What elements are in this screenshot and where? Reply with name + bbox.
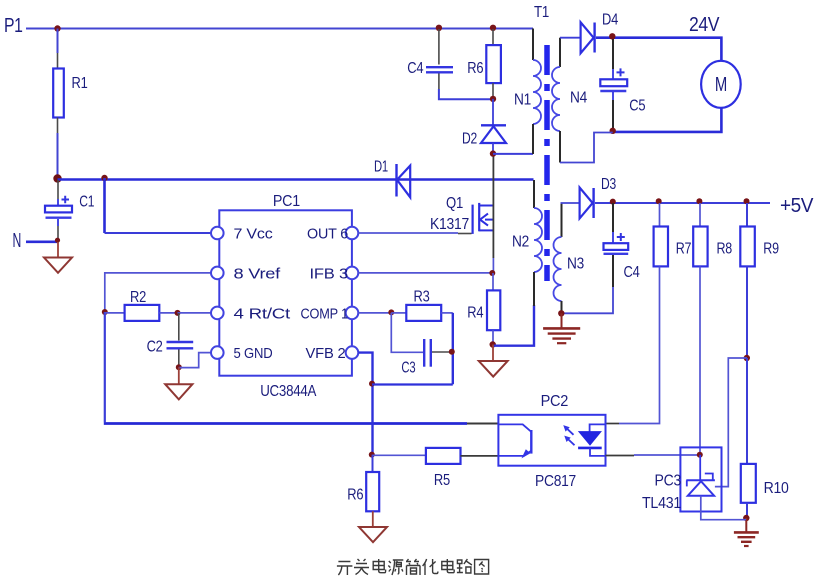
- wire C2 junction to pin 5: [179, 353, 211, 368]
- resistor R7: [654, 203, 692, 266]
- node junction R8 top: [696, 198, 702, 204]
- svg-text:R3: R3: [414, 289, 430, 306]
- node junction top rail / C4: [436, 25, 442, 31]
- svg-text:R1: R1: [72, 75, 88, 92]
- wire R7 bottom to PC2 LED anode: [606, 266, 660, 423]
- svg-text:7 Vcc: 7 Vcc: [234, 225, 274, 242]
- svg-text:R8: R8: [717, 241, 733, 258]
- ground below R4: [479, 345, 508, 377]
- node junction at N / C1 bottom: [55, 238, 60, 243]
- node junction Vref / R2: [102, 309, 108, 315]
- ground below C1: [44, 242, 72, 273]
- node junction D3 / C4: [610, 199, 616, 205]
- wire 24V rail: [596, 38, 721, 61]
- svg-text:C2: C2: [147, 339, 163, 356]
- resistor R3: [391, 289, 453, 321]
- svg-text:K1317: K1317: [430, 216, 469, 233]
- wire R8 bottom to TL431 cathode: [699, 266, 701, 454]
- wire motor bottom loop: [613, 108, 721, 132]
- svg-text:IFB 3: IFB 3: [310, 265, 349, 282]
- svg-text:4 Rt/Ct: 4 Rt/Ct: [234, 305, 292, 322]
- pin 5 GND: [211, 345, 273, 362]
- svg-text:N: N: [13, 230, 22, 252]
- svg-text:TL431: TL431: [642, 495, 681, 512]
- wire N1 bottom lead: [493, 153, 533, 155]
- wire PC2 cathode to TL431: [606, 454, 700, 457]
- capacitor C3: [391, 313, 451, 377]
- node junction VFB vertical: [369, 381, 375, 387]
- node junction N3 bottom: [558, 310, 564, 316]
- wire from top rail down to R1: [57, 29, 59, 69]
- wire from R1 down to C1 junction: [57, 118, 59, 179]
- svg-text:D3: D3: [601, 176, 616, 193]
- wire N4 bottom loop: [560, 133, 613, 163]
- winding N1: [514, 29, 541, 155]
- svg-text:N3: N3: [567, 256, 584, 273]
- wire R2 junction to pin 4: [178, 312, 212, 314]
- svg-text:C1: C1: [79, 194, 94, 211]
- wire Vref branch pin 8: [105, 273, 211, 312]
- node junction TL431 cathode: [697, 452, 703, 458]
- svg-text:C4: C4: [407, 60, 423, 77]
- pin 1 COMP: [301, 305, 359, 322]
- svg-text:M: M: [715, 74, 727, 96]
- capacitor C4 snubber: [407, 29, 492, 99]
- capacitor C4 output: [562, 203, 640, 313]
- wire VFB junction to R3/C3 bottom: [372, 383, 453, 385]
- node 24V label: [689, 14, 720, 36]
- wire P1 top rail: [26, 28, 533, 30]
- svg-text:C5: C5: [629, 98, 645, 115]
- node junction snubber bottom: [490, 96, 496, 102]
- svg-text:PC3: PC3: [655, 473, 682, 490]
- wire IFB pin to source sense: [359, 272, 492, 274]
- light arrows of PC2: [564, 426, 575, 445]
- diode D1: [374, 159, 410, 198]
- ground below R6: [359, 511, 387, 542]
- svg-text:R7: R7: [676, 241, 692, 258]
- motor M: [701, 61, 741, 108]
- node junction R9 / ref branch: [744, 355, 750, 361]
- op-amp U2 PC2 PC817 optocoupler body: [498, 393, 605, 490]
- diode LED of PC2: [578, 424, 605, 456]
- svg-text:N1: N1: [514, 92, 531, 109]
- wire Vref down to bottom rail: [104, 312, 106, 422]
- svg-text:VFB 2: VFB 2: [306, 345, 346, 362]
- node junction R7 top: [656, 198, 662, 204]
- title switching power supply schematic (CJK strokes): [337, 559, 489, 575]
- svg-text:UC3844A: UC3844A: [260, 383, 317, 400]
- svg-text:8 Vref: 8 Vref: [234, 265, 282, 282]
- node junction on top rail at R1: [54, 25, 60, 31]
- svg-text:Q1: Q1: [446, 195, 463, 212]
- svg-text:+5V: +5V: [780, 195, 814, 217]
- svg-text:R10: R10: [764, 480, 789, 497]
- node junction C5 bottom: [610, 128, 616, 134]
- node junction R6 / R5: [369, 452, 375, 458]
- transistor phototransistor of PC2: [498, 424, 531, 457]
- svg-text:OUT 6: OUT 6: [307, 225, 348, 242]
- diode D4: [560, 12, 618, 54]
- svg-text:R5: R5: [434, 472, 450, 489]
- resistor R6 lower: [347, 455, 379, 512]
- svg-text:R6: R6: [467, 60, 483, 77]
- wire R9 bottom to node: [746, 266, 748, 358]
- node junction R9 top: [744, 198, 750, 204]
- wire Vcc branch to pin 7: [105, 178, 212, 233]
- svg-text:D1: D1: [374, 159, 388, 176]
- wire COMP pin to R3: [359, 312, 392, 314]
- wire ref branch: [715, 358, 747, 487]
- pin 8 Vref: [211, 265, 281, 282]
- node junction D4 / C5: [609, 33, 615, 39]
- svg-text:D4: D4: [602, 12, 618, 29]
- node junction D2 / N1 bottom: [490, 150, 496, 156]
- svg-text:P1: P1: [4, 15, 23, 37]
- wire N2 bottom to R4 junction: [493, 305, 534, 346]
- node +5V label: [780, 195, 814, 217]
- pin 4 Rt/Ct: [211, 305, 291, 322]
- svg-text:R6: R6: [347, 487, 363, 504]
- svg-text:C3: C3: [401, 360, 415, 377]
- svg-text:24V: 24V: [689, 14, 720, 36]
- node junction top rail / R6: [490, 25, 496, 31]
- winding N4: [552, 38, 587, 163]
- transformer T1 label: [534, 4, 549, 21]
- svg-text:D2: D2: [462, 131, 477, 148]
- svg-text:5 GND: 5 GND: [234, 345, 273, 362]
- wire bottom rail to PC2 collector: [104, 422, 498, 425]
- node junction IFB / source: [489, 270, 495, 276]
- resistor R6 snubber: [467, 29, 501, 99]
- svg-text:PC817: PC817: [535, 473, 576, 490]
- wire +5V rail: [595, 202, 770, 204]
- node junction COMP / R3 / C3: [388, 309, 394, 315]
- capacitor C5: [600, 39, 645, 130]
- diode TL431 shunt regulator symbol: [686, 455, 746, 520]
- op-amp U3 PC3 TL431 body: [642, 447, 722, 512]
- transistor Q2 Q1 K1317 mosfet: [430, 195, 493, 234]
- resistor R4: [467, 273, 500, 345]
- node junction R10 bottom / TL431 anode: [743, 515, 749, 521]
- resistor R9: [740, 203, 779, 266]
- capacitor C2: [147, 313, 194, 367]
- node junction C3 / right vertical: [449, 349, 455, 355]
- resistor R2: [105, 289, 178, 321]
- node junction R2 / C2: [175, 310, 181, 316]
- wire thick Vcc supply rail through D1: [58, 178, 534, 181]
- resistor R10: [741, 464, 789, 518]
- diode D3: [561, 176, 617, 218]
- wire R3 right vertical: [452, 313, 454, 384]
- resistor R8: [693, 203, 732, 266]
- svg-text:T1: T1: [534, 4, 549, 21]
- pin 6 OUT: [307, 225, 358, 242]
- node main HV junction at C1 top: [53, 174, 61, 182]
- svg-text:R9: R9: [763, 241, 779, 258]
- pin 3 IFB: [310, 265, 359, 282]
- ground below C2: [165, 367, 192, 399]
- capacitor C1: [45, 180, 94, 239]
- svg-text:COMP 1: COMP 1: [301, 305, 349, 322]
- node junction C2 bottom / GND pin: [176, 364, 182, 370]
- node N input label: [13, 230, 22, 252]
- wire Q1 drain-source vertical: [492, 155, 494, 273]
- svg-text:PC1: PC1: [273, 193, 300, 210]
- node junction at Vcc tap: [101, 175, 107, 181]
- node junction R4 bottom: [490, 341, 496, 347]
- transformer core: [544, 45, 550, 281]
- svg-text:N4: N4: [570, 90, 587, 107]
- wire OUT pin to Q1 gate: [359, 232, 472, 235]
- winding N2: [512, 180, 542, 306]
- earth ground below R10: [734, 518, 759, 546]
- diode D2: [462, 99, 506, 154]
- wire VFB pin down: [359, 353, 373, 455]
- resistor R1: [53, 69, 88, 118]
- svg-text:N2: N2: [512, 234, 529, 251]
- wire R9 node down to R10: [746, 358, 748, 464]
- winding N3: [554, 203, 585, 313]
- svg-text:PC2: PC2: [541, 393, 569, 410]
- resistor R5: [373, 448, 499, 489]
- pin 2 VFB: [306, 345, 359, 362]
- earth ground below N3: [543, 313, 580, 343]
- svg-text:R2: R2: [130, 289, 146, 306]
- op-amp U1 PC1 UC3844A chip body: [219, 193, 352, 400]
- pin 7 Vcc: [211, 225, 273, 242]
- node P1 label: [4, 15, 23, 37]
- wire N input: [26, 241, 58, 244]
- svg-text:C4: C4: [624, 264, 640, 281]
- svg-text:R4: R4: [467, 305, 483, 322]
